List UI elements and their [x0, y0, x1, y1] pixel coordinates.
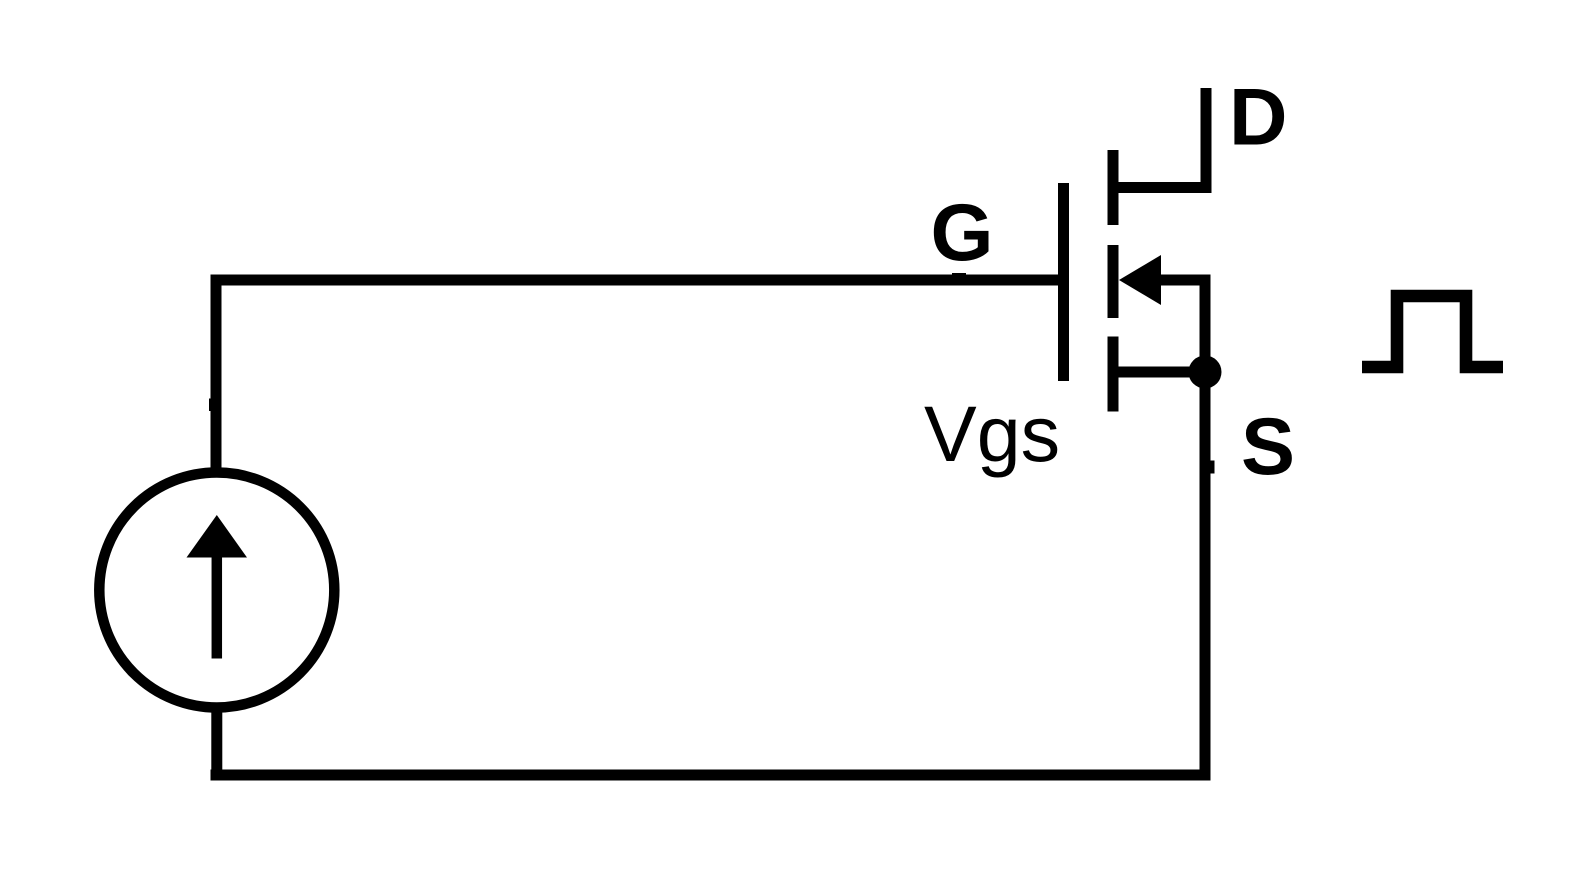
wire: body arrow to source net	[1158, 275, 1211, 286]
svg-text:D: D	[1229, 73, 1288, 163]
transistor Q1 channel body segment	[1108, 245, 1119, 318]
transistor Q1 body arrow	[1119, 255, 1161, 305]
node tick on gate wire below G	[952, 273, 966, 280]
current source arrow shaft	[212, 552, 223, 659]
svg-text:G: G	[931, 188, 994, 278]
svg-text:Vgs: Vgs	[924, 389, 1060, 478]
wire: drain vertical lead to D	[1201, 88, 1212, 193]
wire: source horizontal lead	[1113, 367, 1205, 378]
svg-text:S: S	[1241, 402, 1295, 492]
node tick on left wire	[209, 399, 217, 412]
wire gate net: top horizontal from current source to gate	[211, 275, 1070, 286]
wire: left vertical from top corner down to current source	[211, 275, 222, 471]
wire: right vertical (source net)	[1200, 275, 1211, 781]
pulse waveform symbol	[1362, 296, 1503, 367]
transistor Q1 channel drain segment	[1108, 150, 1119, 225]
wire: drain horizontal lead	[1113, 182, 1212, 193]
node tick on right wire (source pin)	[1205, 461, 1215, 474]
junction dot source node	[1189, 356, 1222, 389]
transistor Q1 gate bar	[1058, 183, 1069, 381]
current source arrow head	[187, 515, 248, 558]
current source I1 circle	[99, 473, 334, 708]
wire: bottom horizontal return	[211, 770, 1210, 781]
wire: current source bottom lead	[211, 706, 222, 781]
transistor Q1 channel source segment	[1108, 337, 1119, 412]
